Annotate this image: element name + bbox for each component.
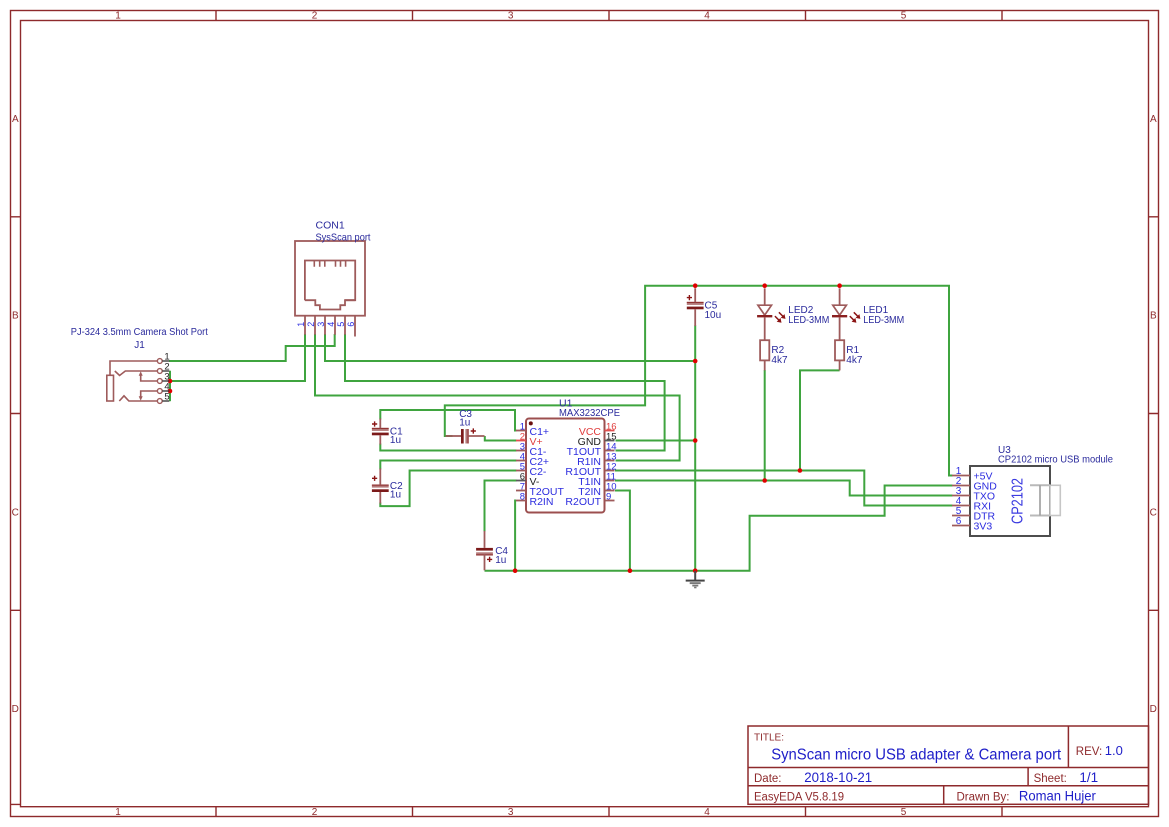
svg-text:2018-10-21: 2018-10-21 bbox=[804, 770, 872, 785]
capacitor C3 bbox=[446, 428, 485, 443]
svg-text:1u: 1u bbox=[390, 490, 401, 501]
capacitor C4 bbox=[476, 531, 493, 570]
title block frame bbox=[748, 726, 1149, 804]
junction dot R1 R1OUT bbox=[798, 468, 803, 473]
svg-text:SynScan micro USB adapter & Ca: SynScan micro USB adapter & Camera port bbox=[771, 746, 1062, 763]
svg-text:A: A bbox=[12, 114, 19, 125]
svg-text:C: C bbox=[12, 507, 19, 518]
svg-text:LED-3MM: LED-3MM bbox=[863, 315, 904, 326]
U1 pin 3 C1- bbox=[516, 450, 526, 452]
wire C2 top to U1 pin4 C2+ bbox=[380, 461, 516, 470]
svg-text:CON1: CON1 bbox=[316, 219, 345, 231]
wire U1 pin11 T1IN to U3 TXO bbox=[615, 481, 953, 496]
svg-text:1: 1 bbox=[115, 807, 121, 818]
capacitor C1 bbox=[372, 419, 389, 445]
wire U1 pin8 R2IN to ground bbox=[514, 501, 517, 571]
svg-text:A: A bbox=[1150, 114, 1157, 125]
frame column numbers bottom bbox=[115, 807, 907, 818]
op-amp U1 MAX3232CPE body bbox=[526, 419, 605, 513]
U1 pin 12 R1OUT bbox=[605, 470, 615, 472]
U1 pin 11 T1IN bbox=[605, 480, 615, 482]
U1 pin 14 T1OUT bbox=[605, 450, 615, 452]
svg-text:2: 2 bbox=[312, 807, 318, 818]
junction dot U1 GND bbox=[693, 438, 698, 443]
U3 usb icon bbox=[1030, 485, 1060, 515]
svg-text:1: 1 bbox=[115, 11, 121, 22]
connector J1 PJ-324 3.5mm jack bbox=[107, 359, 170, 404]
U1 pin 6 V- bbox=[516, 480, 526, 482]
U1 pin 10 T2IN bbox=[605, 490, 615, 492]
U1 pin 8 R2IN bbox=[516, 500, 526, 502]
wire U1 pin15 GND to ground column bbox=[616, 440, 696, 442]
U1 pin 2 V+ bbox=[516, 440, 526, 442]
LED LED2 bbox=[757, 288, 785, 340]
svg-text:4: 4 bbox=[704, 11, 710, 22]
svg-text:1.0: 1.0 bbox=[1105, 743, 1123, 758]
svg-text:10u: 10u bbox=[705, 310, 722, 321]
wire ground line C4 to U3 GND bbox=[485, 486, 953, 571]
U1 pin 7 T2OUT bbox=[516, 490, 526, 492]
svg-text:CP2102 micro USB module: CP2102 micro USB module bbox=[998, 454, 1113, 465]
U1 pin 13 R1IN bbox=[605, 460, 615, 462]
svg-text:3V3: 3V3 bbox=[974, 521, 993, 533]
wire U1 pin12 R1OUT to U3 RXI bbox=[615, 471, 953, 506]
svg-text:1u: 1u bbox=[390, 435, 401, 446]
wire R2 bottom to T1IN line bbox=[764, 370, 766, 481]
junction dots ground line bbox=[513, 568, 518, 573]
junction dot C5 CON1 pin3 bbox=[693, 359, 698, 364]
U1 pin 1 C1+ bbox=[516, 430, 526, 432]
svg-text:C: C bbox=[1150, 507, 1157, 518]
wire C1 top to U1 pin1 C1+ bbox=[380, 410, 516, 431]
wire net VCC rail with C3 branch and U3 +5V branch bbox=[445, 286, 953, 476]
U1 pin 5 C2- bbox=[516, 470, 526, 472]
svg-text:CP2102: CP2102 bbox=[1010, 478, 1027, 524]
svg-text:1u: 1u bbox=[495, 555, 506, 566]
frame column numbers top bbox=[115, 11, 907, 22]
frame row letters right bbox=[1150, 114, 1157, 715]
U3 pin 1 +5V bbox=[952, 475, 970, 477]
svg-text:4k7: 4k7 bbox=[771, 355, 788, 366]
connector CON1 SysScan port bbox=[295, 241, 365, 316]
svg-text:6: 6 bbox=[956, 516, 962, 527]
J1 pin numbers 1-5 bbox=[164, 352, 169, 403]
wire C5 / ground column bbox=[694, 325, 696, 570]
capacitor C2 bbox=[372, 469, 389, 504]
U3 pin 5 DTR bbox=[952, 515, 970, 517]
svg-text:3: 3 bbox=[316, 322, 326, 327]
junction dots J1 tie bbox=[168, 379, 173, 384]
svg-text:EasyEDA V5.8.19: EasyEDA V5.8.19 bbox=[754, 791, 844, 803]
svg-text:D: D bbox=[1150, 704, 1157, 715]
U3 pin 4 RXI bbox=[952, 505, 970, 507]
svg-text:9: 9 bbox=[606, 492, 611, 503]
svg-text:1: 1 bbox=[296, 322, 306, 327]
U1 pin 4 C2+ bbox=[516, 460, 526, 462]
wire CON1 pin5 to U1 pin14 T1OUT bbox=[345, 334, 665, 451]
svg-text:Roman Hujer: Roman Hujer bbox=[1019, 788, 1096, 803]
U1 pin 9 R2OUT bbox=[605, 500, 615, 502]
svg-text:R2OUT: R2OUT bbox=[565, 496, 601, 508]
svg-text:5: 5 bbox=[336, 322, 346, 327]
svg-text:MAX3232CPE: MAX3232CPE bbox=[559, 407, 620, 419]
svg-text:D: D bbox=[12, 704, 19, 715]
CON1 pin leads bbox=[305, 316, 355, 337]
wire R1 bottom to R1OUT line bbox=[800, 370, 840, 470]
ground bbox=[686, 571, 705, 588]
svg-text:1/1: 1/1 bbox=[1079, 770, 1098, 785]
junction dots VCC rail bbox=[693, 283, 698, 288]
svg-text:PJ-324 3.5mm Camera Shot Port: PJ-324 3.5mm Camera Shot Port bbox=[71, 327, 208, 338]
svg-text:B: B bbox=[1150, 311, 1157, 322]
svg-text:2: 2 bbox=[312, 11, 318, 22]
svg-text:TITLE:: TITLE: bbox=[754, 733, 784, 744]
svg-text:4: 4 bbox=[326, 322, 336, 327]
svg-text:8: 8 bbox=[520, 492, 525, 503]
svg-text:B: B bbox=[12, 311, 19, 322]
wire CON1 pin2 to U1 pin13 R1IN bbox=[315, 334, 680, 461]
svg-text:6: 6 bbox=[346, 322, 356, 327]
capacitor C5 bbox=[687, 288, 704, 326]
wire J1 pin3 to CON1 pin1 bbox=[170, 334, 305, 381]
wire J1 pin1 to CON1 pin4 bbox=[169, 334, 335, 361]
wire U1 pin10 T2IN to ground bbox=[615, 491, 630, 571]
svg-text:5: 5 bbox=[901, 11, 907, 22]
wire C3 positive to U1 pin2 V+ bbox=[485, 436, 517, 441]
svg-text:J1: J1 bbox=[134, 340, 145, 351]
U3 pin 3 TXO bbox=[952, 495, 970, 497]
svg-text:3: 3 bbox=[508, 11, 514, 22]
wire CON1 pin3 to C5 node bbox=[325, 334, 695, 361]
wire U1 pin6 V- to C4 bbox=[485, 481, 517, 532]
wire C2 bottom to U1 pin5 C2- bbox=[380, 471, 516, 507]
U1 pin 15 GND bbox=[605, 440, 615, 442]
U1 pin 16 VCC bbox=[605, 430, 615, 432]
svg-text:Drawn By:: Drawn By: bbox=[957, 791, 1010, 803]
frame row letters left bbox=[12, 114, 19, 715]
resistor R1 bbox=[835, 340, 844, 360]
U1 pin1 orientation dot bbox=[529, 421, 533, 425]
CON1 pin numbers 1-6 bbox=[296, 322, 356, 327]
svg-text:LED-3MM: LED-3MM bbox=[788, 315, 829, 326]
svg-text:4: 4 bbox=[704, 807, 710, 818]
svg-text:REV:: REV: bbox=[1076, 746, 1102, 758]
svg-text:R2IN: R2IN bbox=[530, 496, 554, 508]
svg-text:SysScan port: SysScan port bbox=[316, 232, 371, 244]
svg-text:Sheet:: Sheet: bbox=[1034, 773, 1067, 785]
svg-text:5: 5 bbox=[164, 392, 169, 403]
U3 pin 6 3V3 bbox=[952, 525, 970, 527]
module U3 CP2102 body bbox=[970, 466, 1050, 536]
svg-text:1u: 1u bbox=[459, 418, 470, 429]
svg-text:5: 5 bbox=[901, 807, 907, 818]
wire J1 pins 2-5 tie bbox=[169, 371, 171, 402]
svg-text:Date:: Date: bbox=[754, 773, 782, 785]
U3 pin 2 GND bbox=[952, 485, 970, 487]
wire C1 bottom to U1 pin3 C1- bbox=[380, 444, 516, 451]
LED LED1 bbox=[832, 288, 860, 340]
svg-text:2: 2 bbox=[306, 322, 316, 327]
resistor R2 bbox=[760, 340, 769, 360]
svg-text:3: 3 bbox=[508, 807, 514, 818]
svg-text:4k7: 4k7 bbox=[846, 355, 863, 366]
junction dot R2 T1IN bbox=[762, 478, 767, 483]
